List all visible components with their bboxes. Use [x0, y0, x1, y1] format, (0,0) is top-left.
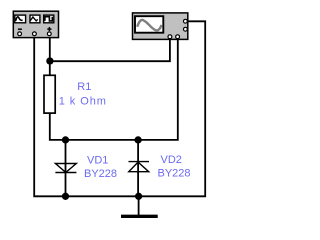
- svg-text:VD2: VD2: [160, 154, 181, 166]
- svg-text:BY228: BY228: [84, 168, 117, 180]
- svg-text:R1: R1: [77, 81, 91, 93]
- svg-text:BY228: BY228: [157, 168, 190, 180]
- svg-text:VD1: VD1: [87, 155, 108, 167]
- svg-text:1 k Ohm: 1 k Ohm: [59, 95, 107, 107]
